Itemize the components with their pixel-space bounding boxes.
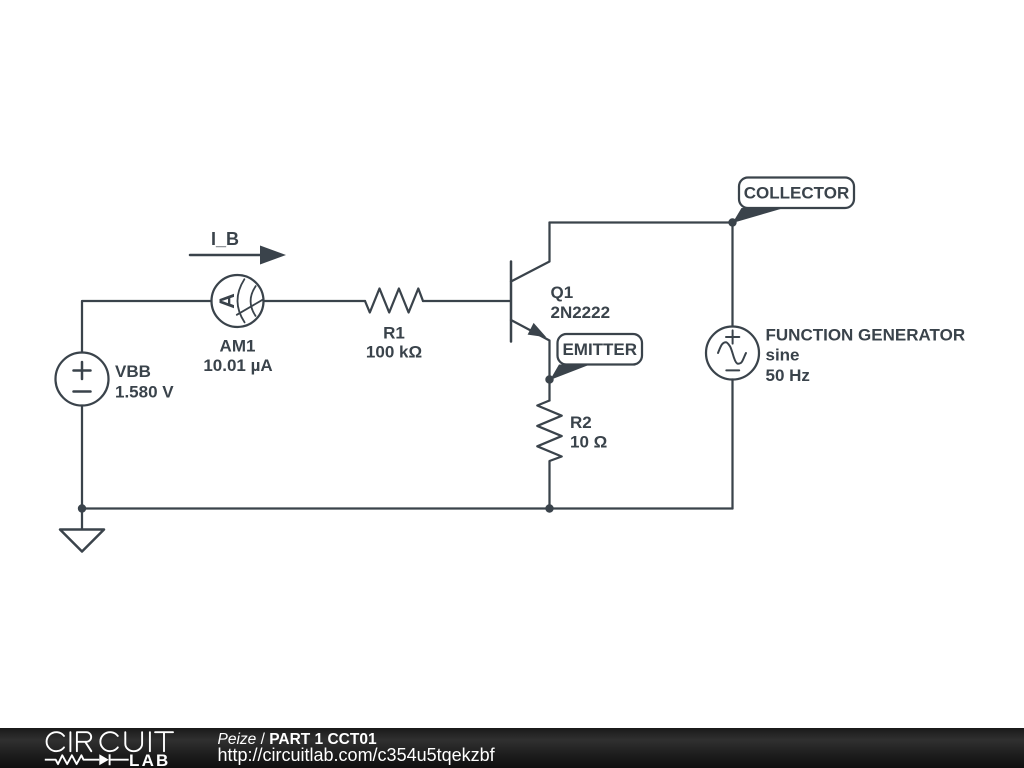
node dot collector (728, 218, 736, 226)
svg-text:LAB: LAB (129, 751, 171, 768)
ammeter AM1 (212, 275, 264, 327)
svg-text:sine: sine (766, 346, 800, 365)
CircuitLab logo CIRCUIT (47, 732, 173, 751)
wire ammeter to R1 (264, 300, 366, 302)
svg-text:100 kΩ: 100 kΩ (366, 343, 422, 362)
svg-text:R1: R1 (383, 324, 405, 343)
svg-text:R2: R2 (570, 413, 592, 432)
CircuitLab logo resistor-diode glyph (45, 754, 129, 765)
svg-text:A: A (215, 293, 239, 309)
wire VBB to ground node (81, 406, 83, 530)
svg-text:http://circuitlab.com/c354u5tq: http://circuitlab.com/c354u5tqekzbf (218, 745, 496, 765)
node dot bottom R2 (545, 504, 553, 512)
node dot ground (78, 504, 86, 512)
ground (60, 530, 104, 552)
svg-text:10 Ω: 10 Ω (570, 433, 607, 452)
svg-text:VBB: VBB (115, 362, 151, 381)
wire R1 to base of Q1 (423, 300, 510, 302)
svg-text:2N2222: 2N2222 (551, 303, 611, 322)
footer bar (0, 728, 1024, 768)
svg-text:COLLECTOR: COLLECTOR (744, 184, 849, 203)
voltage source VBB (56, 353, 109, 406)
wire function generator branch (731, 223, 733, 509)
node dot emitter (545, 375, 553, 383)
current arrow I_B (190, 246, 286, 265)
svg-text:50 Hz: 50 Hz (766, 366, 810, 385)
svg-text:Q1: Q1 (551, 283, 574, 302)
wire collector top run (550, 221, 733, 223)
svg-text:1.580 V: 1.580 V (115, 383, 174, 402)
svg-text:FUNCTION GENERATOR: FUNCTION GENERATOR (766, 326, 966, 345)
svg-text:EMITTER: EMITTER (562, 340, 637, 359)
transistor Q1 (511, 223, 550, 401)
resistor R2 (537, 401, 561, 509)
svg-text:I_B: I_B (211, 229, 239, 249)
wire bottom rail (82, 507, 733, 509)
wire top-left corner to ammeter (82, 301, 212, 353)
function generator V1 (706, 327, 759, 380)
COLLECTOR callout (733, 178, 855, 224)
resistor R1 (365, 289, 423, 313)
svg-text:10.01 µA: 10.01 µA (203, 356, 272, 375)
svg-text:AM1: AM1 (220, 337, 256, 356)
EMITTER callout (550, 334, 642, 380)
